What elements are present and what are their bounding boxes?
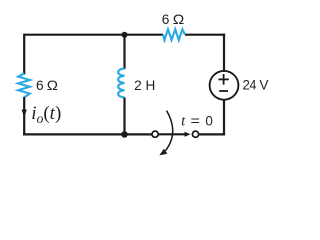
wire left vertical upper <box>23 34 25 75</box>
wire middle vertical upper <box>123 35 125 69</box>
voltage source V1 circle <box>210 71 239 100</box>
wire left vertical lower <box>23 97 25 136</box>
minus sign of source <box>219 90 228 92</box>
svg-text:Ω: Ω <box>173 13 185 28</box>
switch motion arc arrow <box>165 111 172 151</box>
resistor R-top 6 ohm (horizontal zigzag) <box>163 29 185 40</box>
label 24 V <box>243 77 270 93</box>
svg-text:2: 2 <box>134 77 142 93</box>
arrow i_o current direction <box>22 110 27 118</box>
svg-text:6: 6 <box>36 77 44 93</box>
node junction dot bottom <box>121 131 128 138</box>
label 6 ohm left <box>36 77 58 94</box>
label 2 H <box>134 77 155 93</box>
resistor R1 6 ohm (left vertical zigzag) <box>18 74 30 98</box>
label 6 ohm top <box>162 11 185 28</box>
switch blade wire with arrowhead <box>159 133 186 135</box>
switch contact circle right <box>192 131 198 137</box>
node junction dot top <box>122 32 128 38</box>
svg-text:6: 6 <box>162 11 170 27</box>
wire bottom left horizontal <box>23 133 152 135</box>
wire right vertical upper <box>223 34 225 71</box>
svg-text:4: 4 <box>250 77 257 93</box>
wire bottom right horizontal <box>199 133 225 135</box>
svg-text:0: 0 <box>205 113 213 128</box>
svg-text:H: H <box>146 78 156 93</box>
svg-text:Ω: Ω <box>47 78 58 93</box>
wire middle vertical lower <box>123 98 125 135</box>
wire right vertical lower <box>223 100 225 135</box>
plus sign of source <box>218 78 228 80</box>
wire top left horizontal <box>24 34 163 36</box>
svg-text:io(t): io(t) <box>31 103 61 126</box>
switch contact circle left <box>152 131 158 137</box>
svg-text:=: = <box>191 114 201 130</box>
wire top right horizontal <box>185 34 225 36</box>
svg-text:t: t <box>181 114 186 130</box>
svg-text:V: V <box>259 77 269 92</box>
inductor L1 2 H (coil) <box>118 69 124 98</box>
